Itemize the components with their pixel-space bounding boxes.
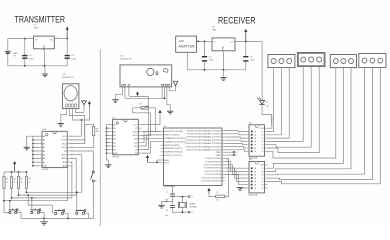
wire J2 to U5 outputs — [267, 67, 303, 142]
wire U4 data to MCU — [141, 132, 160, 143]
regulator U7 7805 — [34, 36, 55, 49]
svg-text:VO: VO — [231, 41, 234, 43]
svg-text:D1: D1 — [266, 102, 268, 104]
svg-text:A0: A0 — [113, 123, 115, 126]
svg-text:1u35v: 1u35v — [209, 60, 214, 62]
battery BAT1 — [5, 50, 11, 52]
svg-text:AD11: AD11 — [62, 154, 67, 157]
svg-text:S1: S1 — [95, 181, 97, 183]
svg-text:7805: 7805 — [212, 30, 216, 32]
power flag VCC U4 area — [159, 112, 161, 114]
svg-text:16MHZ: 16MHZ — [189, 203, 196, 205]
power flag VCC TX — [66, 29, 68, 39]
wire VO rail — [235, 40, 262, 42]
svg-text:1u35v: 1u35v — [250, 60, 255, 62]
LED D1 — [260, 100, 265, 104]
wire U9 gnd stem — [223, 51, 225, 70]
svg-text:R5: R5 — [96, 128, 98, 130]
terminal crystal X1 — [188, 196, 190, 198]
svg-text:R4: R4 — [29, 179, 31, 181]
svg-text:ULN2003A: ULN2003A — [248, 193, 258, 196]
svg-text:PC2/TCK (PCINT10): PC2/TCK (PCINT10) — [204, 165, 221, 167]
svg-text:COM: COM — [259, 128, 264, 130]
svg-text:XTAL1: XTAL1 — [216, 151, 222, 154]
wire U4 address bus — [107, 124, 110, 126]
svg-text:X1: X1 — [235, 152, 237, 154]
svg-text:1: 1 — [29, 37, 30, 39]
svg-text:PB4/SS (PCINT12): PB4/SS (PCINT12) — [164, 145, 180, 147]
antenna RX — [175, 86, 177, 91]
ground RX module — [112, 99, 118, 101]
wire TE to switch — [70, 151, 93, 171]
svg-text:PA0/ADC0 (PCINT0): PA0/ADC0 (PCINT0) — [204, 129, 221, 132]
svg-text:1k: 1k — [6, 181, 8, 183]
svg-text:AD9: AD9 — [63, 161, 67, 164]
svg-text:D8: D8 — [135, 153, 137, 155]
wire R1 to button1 — [4, 188, 9, 212]
svg-text:DOUT: DOUT — [61, 140, 67, 142]
node C3 top — [24, 38, 26, 40]
wire button bus lines — [4, 200, 68, 202]
svg-text:1k: 1k — [14, 181, 16, 183]
svg-text:PA1/ADC1 (PCINT1): PA1/ADC1 (PCINT1) — [204, 133, 221, 136]
svg-text:1k: 1k — [21, 181, 23, 183]
wire R2 right to OSC1 — [141, 108, 155, 132]
ground RX module right — [167, 110, 173, 112]
regulator U9 7805 — [212, 38, 235, 51]
svg-text:R7: R7 — [216, 192, 218, 194]
wire bus to button3 — [28, 195, 52, 213]
svg-text:VI: VI — [213, 41, 215, 43]
capacitor C3 — [24, 39, 26, 55]
svg-text:PD0/RXD (PCINT16): PD0/RXD (PCINT16) — [187, 130, 205, 132]
svg-text:A7: A7 — [43, 161, 45, 164]
resistor R2 pull-up — [11, 172, 13, 177]
button SW3 — [55, 212, 57, 214]
wire button ground bus — [21, 217, 93, 219]
svg-text:A7: A7 — [113, 148, 115, 151]
wire MCU to U6 inputs — [225, 158, 246, 168]
svg-text:PC4/TDO (PCINT12): PC4/TDO (PCINT12) — [204, 171, 222, 173]
svg-text:PD4/OC1B (PCINT20): PD4/OC1B (PCINT20) — [186, 143, 205, 145]
wire RX module gnd pin1 — [115, 87, 122, 100]
resistor R7 reset — [209, 193, 216, 196]
wire battery left — [7, 39, 9, 52]
wire VCC rail buttons — [4, 171, 27, 173]
IC U5 ULN2003A — [249, 125, 265, 156]
svg-text:OSC1: OSC1 — [132, 132, 137, 134]
switch TE — [92, 171, 94, 173]
wire LED to U5 COM — [267, 115, 272, 129]
svg-text:A5: A5 — [113, 141, 115, 144]
wire button2 up — [31, 198, 33, 211]
svg-text:A2: A2 — [43, 142, 45, 145]
svg-text:10k: 10k — [216, 200, 219, 202]
resistor R4 pull-up — [26, 172, 28, 177]
ground crystal — [158, 204, 164, 206]
svg-text:A4: A4 — [113, 138, 115, 141]
wire U1 address bus to ground — [33, 135, 39, 137]
svg-text:X2: X2 — [191, 212, 193, 214]
svg-text:PC7/TOSC2 (PCINT15): PC7/TOSC2 (PCINT15) — [202, 181, 222, 183]
wire 12V feed down — [261, 41, 263, 100]
svg-text:VCC: VCC — [134, 124, 139, 126]
svg-text:PD3/INT1 (PCINT19): PD3/INT1 (PCINT19) — [187, 140, 205, 142]
IC U6 ULN2003A — [249, 162, 265, 193]
svg-text:ATMEGA16: ATMEGA16 — [165, 185, 176, 188]
wire LED down to U5 — [262, 104, 272, 126]
wire bottom rail RX — [187, 69, 246, 71]
button SW2 — [31, 211, 33, 213]
capacitor C8 — [170, 204, 175, 206]
svg-text:A5: A5 — [43, 154, 45, 157]
resistor R1 pull-up — [3, 172, 5, 177]
svg-text:1k: 1k — [29, 181, 31, 183]
svg-text:18: 18 — [71, 136, 73, 138]
wire RX data pin loop — [128, 87, 130, 92]
svg-text:R3: R3 — [21, 179, 23, 181]
svg-text:PB2/AIN0/INT2 (PCINT10): PB2/AIN0/INT2 (PCINT10) — [164, 137, 186, 140]
block 12V ADAPTER — [176, 36, 197, 52]
svg-text:AD10: AD10 — [62, 157, 67, 160]
svg-text:PC0/SCL (PCINT8): PC0/SCL (PCINT8) — [205, 158, 221, 160]
svg-text:VO: VO — [50, 39, 53, 41]
wire VCC to module pin3 — [73, 107, 90, 120]
svg-text:X2: X2 — [235, 155, 237, 157]
svg-text:C7: C7 — [166, 192, 168, 194]
svg-text:TRANSMITTER: TRANSMITTER — [15, 14, 66, 25]
wire adapter out — [197, 40, 213, 42]
power flag VCC RX module — [137, 93, 139, 96]
svg-text:PB7/SCK (PCINT15): PB7/SCK (PCINT15) — [164, 155, 181, 157]
ground buttons — [40, 221, 47, 223]
svg-text:PD1/TXD (PCINT17): PD1/TXD (PCINT17) — [187, 134, 204, 136]
wire DOUT to DATA — [70, 109, 85, 140]
resistor R3 pull-up — [18, 172, 20, 177]
svg-text:A3: A3 — [43, 146, 45, 149]
crystal X1 16MHZ — [173, 196, 189, 198]
svg-text:PD2/INT0 (PCINT18): PD2/INT0 (PCINT18) — [187, 137, 205, 139]
button SW4 — [76, 212, 78, 214]
terminal XTAL1 XTAL2 — [222, 151, 233, 153]
connector J1 — [268, 55, 295, 68]
connector J2 — [297, 53, 325, 67]
ground U4 — [105, 164, 111, 166]
svg-text:OSC2: OSC2 — [61, 147, 66, 149]
svg-text:A1: A1 — [113, 127, 115, 130]
svg-text:A4: A4 — [43, 150, 45, 153]
ground U6 — [240, 187, 246, 189]
svg-text:RECEIVER: RECEIVER — [218, 14, 256, 25]
wire bottom rail TX — [8, 65, 67, 67]
connector J3 — [330, 55, 356, 68]
svg-text:PB1/T1 (PCINT9): PB1/T1 (PCINT9) — [164, 135, 179, 137]
wire U7 gnd stem — [44, 49, 46, 66]
svg-text:XTAL2: XTAL2 — [216, 154, 222, 157]
wire button1 up — [9, 201, 11, 211]
svg-text:C8: C8 — [166, 210, 168, 212]
svg-text:PB6/MISO (PCINT14): PB6/MISO (PCINT14) — [164, 152, 182, 154]
capacitor C4 — [66, 38, 68, 40]
svg-text:1u35v: 1u35v — [71, 58, 76, 60]
svg-text:R2: R2 — [140, 104, 142, 106]
power flag VCC TX module — [88, 103, 90, 107]
wire antenna RX to pin — [169, 87, 175, 91]
svg-text:A6: A6 — [113, 145, 115, 148]
svg-text:ADAPTER: ADAPTER — [178, 44, 195, 48]
svg-text:D9: D9 — [135, 149, 137, 151]
wire RX module pin2 loop — [125, 87, 165, 98]
svg-text:2: 2 — [58, 37, 59, 39]
svg-text:PB3/AIN1/OC0 (PCINT11): PB3/AIN1/OC0 (PCINT11) — [164, 140, 186, 143]
svg-text:1u35v: 1u35v — [29, 58, 34, 60]
wire J3 J4 staircase — [267, 68, 335, 158]
svg-text:OSC2: OSC2 — [132, 135, 137, 137]
connector J4 — [359, 54, 386, 68]
wire module data down to DIN — [141, 96, 148, 138]
svg-text:R1: R1 — [6, 179, 8, 181]
power flag VCC AREF — [147, 157, 149, 162]
svg-text:7805: 7805 — [34, 28, 38, 30]
wire AD data lines down — [70, 155, 82, 193]
svg-text:PC6/TOSC1 (PCINT14): PC6/TOSC1 (PCINT14) — [202, 177, 222, 179]
button SW1 — [9, 211, 11, 213]
svg-text:COM: COM — [259, 165, 264, 167]
wire caps common to ground — [166, 201, 168, 203]
wire AREF AVCC — [148, 161, 161, 163]
svg-text:PA2/ADC2 (PCINT2): PA2/ADC2 (PCINT2) — [204, 136, 221, 139]
wire top rail TX — [8, 38, 34, 40]
svg-text:A2: A2 — [113, 131, 115, 134]
wire reset to MCU — [225, 158, 229, 196]
wire R2 loop to OSC2 — [132, 108, 150, 136]
svg-text:PC1/SDA (PCINT9): PC1/SDA (PCINT9) — [205, 160, 221, 163]
capacitor C7 — [170, 193, 175, 195]
ground RX regulator — [220, 77, 226, 79]
svg-text:AVCC: AVCC — [164, 161, 170, 164]
wire J1 to U5 outputs — [267, 68, 273, 132]
svg-text:PC3/TMS (PCINT11): PC3/TMS (PCINT11) — [204, 168, 222, 170]
svg-text:VCC: VCC — [62, 136, 67, 138]
svg-text:CRYSTAL: CRYSTAL — [189, 205, 197, 208]
power flag VCC buttons — [14, 163, 16, 172]
svg-text:X1: X1 — [191, 196, 193, 198]
svg-text:PB5/MOSI (PCINT13): PB5/MOSI (PCINT13) — [164, 148, 182, 150]
resistor R5 oscillator — [70, 125, 94, 144]
divider line — [99, 50, 101, 227]
svg-text:GND: GND — [43, 166, 48, 168]
svg-text:PA4/ADC4 (PCINT4): PA4/ADC4 (PCINT4) — [204, 142, 221, 145]
svg-text:12V: 12V — [179, 39, 184, 43]
svg-text:A3: A3 — [113, 134, 115, 137]
capacitor C5 — [204, 41, 206, 56]
ground TX module — [58, 123, 64, 125]
svg-text:MODULE RX: MODULE RX — [121, 58, 133, 60]
wire VCC branch to U1 pin18 — [70, 120, 81, 136]
wire MCU to U5 inputs — [225, 130, 246, 133]
svg-text:PB0/T0/XCK (PCINT8): PB0/T0/XCK (PCINT8) — [164, 131, 183, 133]
svg-text:A6: A6 — [43, 157, 45, 160]
ground TX regulator — [42, 73, 48, 75]
svg-text:PA5/ADC5 (PCINT5): PA5/ADC5 (PCINT5) — [204, 145, 221, 148]
ground U1 address — [24, 146, 30, 148]
wire RX module pin3 to ground — [167, 87, 170, 111]
wire antenna to pin4 — [76, 109, 85, 113]
power flag VCC RX — [245, 31, 247, 41]
svg-text:HT12E: HT12E — [42, 169, 49, 171]
terminal crystal X2 — [188, 211, 190, 213]
svg-text:D10: D10 — [134, 146, 137, 148]
svg-text:GND: GND — [113, 153, 118, 155]
antenna TX — [83, 104, 85, 112]
svg-text:MODULE TX: MODULE TX — [62, 77, 74, 79]
wire MCU to crystal caps — [172, 186, 174, 194]
svg-text:HT12D: HT12D — [113, 157, 120, 159]
svg-text:R2: R2 — [14, 179, 16, 181]
wire VCC to U4 pin18 — [141, 114, 160, 125]
svg-text:GND: GND — [223, 45, 225, 50]
wire TX module gnd — [61, 109, 67, 124]
wire button4 up — [76, 192, 78, 212]
svg-text:22p: 22p — [165, 215, 168, 217]
svg-text:AD8: AD8 — [63, 165, 67, 168]
svg-text:17: 17 — [71, 140, 73, 142]
svg-text:PC5/TDI (PCINT13): PC5/TDI (PCINT13) — [205, 174, 222, 176]
svg-text:PA3/ADC3 (PCINT3): PA3/ADC3 (PCINT3) — [204, 139, 221, 142]
svg-text:OSC1: OSC1 — [61, 143, 66, 145]
power flag VCC reset — [208, 190, 210, 193]
svg-text:A1: A1 — [43, 139, 45, 142]
svg-text:PD5/OC1A (PCINT21): PD5/OC1A (PCINT21) — [186, 145, 205, 148]
svg-text:A0: A0 — [43, 135, 45, 138]
svg-text:D11: D11 — [134, 142, 137, 144]
capacitor C6 — [245, 41, 247, 56]
svg-text:PD6/ICP1 (PCINT22): PD6/ICP1 (PCINT22) — [186, 150, 204, 152]
